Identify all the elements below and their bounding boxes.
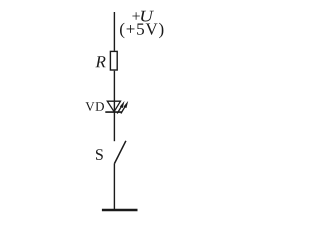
node +U supply label: [132, 11, 154, 22]
wire from +U to resistor R: [113, 12, 115, 51]
ground bar: [102, 209, 138, 211]
LED VD label: [85, 102, 104, 111]
LED VD triangle (anode): [107, 101, 120, 112]
LED VD emission arrow 1: [117, 101, 124, 114]
LED VD cathode bar: [105, 111, 122, 113]
node (+5V) label: [120, 23, 163, 38]
wire from resistor R through LED VD to switch S: [113, 71, 115, 142]
wire from switch S to ground: [113, 164, 115, 210]
resistor R: [110, 51, 117, 70]
LED VD emission arrow 2: [121, 101, 128, 114]
switch S label: [96, 149, 103, 160]
resistor R label: [95, 56, 105, 67]
switch S blade: [114, 141, 126, 164]
